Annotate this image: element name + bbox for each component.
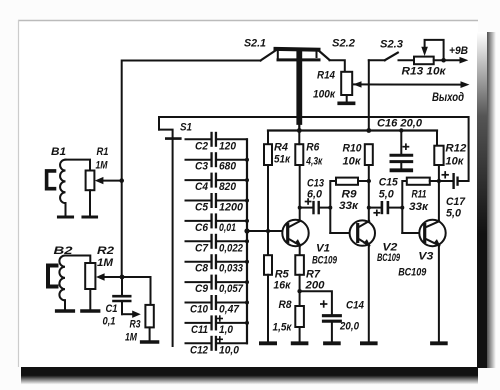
svg-text:R9: R9 [342, 189, 358, 201]
svg-text:0,022: 0,022 [219, 242, 243, 254]
svg-text:1М: 1М [125, 332, 138, 344]
ground C14 [323, 341, 341, 345]
svg-text:V3: V3 [418, 251, 433, 263]
svg-text:33к: 33к [409, 201, 430, 213]
transducer B2 coil [59, 256, 65, 301]
wire V3 emitter to ground [438, 245, 440, 342]
ground B2 [57, 309, 74, 312]
wire R13 to +9V [434, 59, 461, 61]
resistor R3 (pot) [145, 305, 153, 328]
B2 core [48, 266, 57, 287]
ground B1 [59, 215, 73, 218]
switch S2.2 blade [318, 50, 330, 60]
wire base V1 [247, 230, 287, 232]
capacitor C5 [210, 193, 212, 208]
svg-text:S2.2: S2.2 [332, 38, 355, 50]
polarity plus C17 [442, 171, 449, 178]
svg-text:6,0: 6,0 [307, 189, 323, 201]
resistor R10 [365, 144, 373, 165]
capacitor C10 [210, 295, 212, 310]
switch S2.3 [369, 59, 385, 61]
svg-text:120: 120 [219, 140, 237, 152]
node R1 tap [119, 178, 124, 183]
svg-text:1М: 1М [96, 160, 109, 172]
capacitor C9 [210, 275, 212, 290]
svg-text:4,3к: 4,3к [306, 156, 324, 168]
svg-text:С2: С2 [195, 140, 208, 152]
svg-text:R4: R4 [274, 142, 288, 154]
svg-text:С4: С4 [195, 181, 208, 193]
capacitor C13 [300, 207, 313, 209]
resistor R2 (pot) [85, 263, 95, 289]
capacitor C15 plates [381, 201, 384, 214]
svg-text:ВС109: ВС109 [312, 255, 338, 267]
svg-text:С5: С5 [195, 202, 209, 214]
switch S1 wiper bus [159, 130, 173, 346]
wire R2 wiper to R3 [102, 276, 151, 278]
resistor R6 [295, 144, 303, 165]
svg-text:ВС109: ВС109 [398, 267, 427, 279]
svg-text:С9: С9 [195, 283, 209, 295]
arrowheads group 1 [353, 47, 470, 88]
wire S2.2 to R14 [330, 60, 345, 72]
wire Vyhod output line [354, 83, 464, 85]
capacitor C2 [210, 132, 212, 147]
ground R1 [83, 215, 97, 218]
svg-text:0,033: 0,033 [219, 263, 243, 275]
svg-text:ВС109: ВС109 [377, 252, 401, 264]
grounds bottom row [259, 341, 448, 345]
svg-text:С6: С6 [195, 222, 209, 234]
svg-text:1,5к: 1,5к [273, 322, 293, 334]
capacitor bank C2..C12 wires and plates [186, 139, 248, 343]
node base tap [244, 228, 249, 233]
svg-text:+9В: +9В [449, 45, 468, 57]
svg-text:200: 200 [304, 280, 325, 292]
svg-text:S2.3: S2.3 [380, 39, 403, 51]
wire R1 wiper [102, 180, 122, 182]
svg-text:5,0: 5,0 [379, 189, 395, 201]
svg-text:1200: 1200 [219, 202, 244, 214]
resistor R1 (pot) [86, 171, 95, 191]
svg-text:С14: С14 [346, 300, 364, 312]
svg-text:5,0: 5,0 [446, 208, 462, 220]
wire B1 top to R1 [66, 160, 91, 171]
wire right bus of capacitor bank [246, 139, 248, 343]
transistor V2 [350, 220, 375, 245]
ground R14 [337, 102, 355, 106]
capacitor C17 plates [452, 173, 454, 189]
wire V2 emitter to ground [368, 245, 370, 342]
wire V3 collector [438, 181, 440, 223]
wire B2 top to R2 [65, 256, 90, 264]
svg-text:С7: С7 [195, 242, 209, 254]
wire V1 collector [299, 165, 301, 223]
switch bridge bar S2.1-S2.2 [276, 47, 319, 52]
resistor R4 [264, 144, 272, 165]
junction dots on bus [245, 158, 249, 162]
svg-text:R12: R12 [445, 143, 466, 155]
ground R3 [142, 340, 158, 343]
svg-text:0,1: 0,1 [103, 316, 116, 328]
svg-text:820: 820 [219, 181, 237, 193]
wire jog to V2 base [330, 181, 336, 233]
svg-text:V1: V1 [316, 243, 330, 255]
transistor V1 [282, 220, 308, 246]
svg-text:С11: С11 [191, 324, 208, 336]
capacitor C14 wires [300, 291, 332, 314]
R1 wiper arrowhead [95, 177, 104, 184]
R3 wiper arrowhead [132, 311, 141, 318]
capacitor C15 [369, 207, 381, 209]
wire feedback top line [159, 117, 469, 181]
svg-text:S2.1: S2.1 [244, 38, 266, 50]
polarity plus C13 [305, 198, 312, 205]
transistor V3 [419, 220, 445, 246]
wire V2 collector [368, 165, 370, 223]
resistor R9 [336, 178, 358, 185]
B1 core [47, 171, 55, 189]
svg-text:10к: 10к [445, 156, 464, 168]
svg-text:R11: R11 [412, 189, 427, 201]
svg-text:33к: 33к [339, 200, 360, 212]
svg-text:20,0: 20,0 [339, 321, 360, 333]
resistor R5 [264, 255, 272, 275]
capacitor C7 [210, 234, 212, 249]
capacitor C8 [210, 254, 212, 269]
wire V1 emitter to R7 [299, 245, 301, 255]
capacitor C13 plates [312, 201, 314, 214]
R13 rheostat loop [425, 40, 444, 60]
ground R2 [82, 309, 99, 312]
polarity plus C15 [373, 210, 380, 217]
page bottom shadow [21, 367, 478, 385]
svg-text:0,057: 0,057 [219, 283, 244, 295]
R13 wiper arrowhead [421, 47, 428, 56]
polarity plus C12 [217, 336, 224, 342]
wire jog to V3 base [402, 181, 407, 233]
svg-text:R8: R8 [279, 299, 293, 311]
svg-text:1,0: 1,0 [219, 324, 234, 336]
capacitor C4 [210, 173, 212, 188]
polarity plus C11 [217, 315, 224, 321]
page right shadow [477, 32, 496, 368]
svg-text:1М: 1М [97, 257, 114, 269]
capacitor C12 [210, 336, 212, 351]
svg-text:С8: С8 [195, 263, 209, 275]
svg-text:Выход: Выход [432, 90, 464, 104]
svg-text:0,01: 0,01 [219, 222, 236, 234]
transducer B1 coil [60, 160, 65, 204]
wire input bus from B1/B2 to S2.1 [122, 61, 261, 278]
resistor R11 [407, 178, 430, 185]
R2 wiper arrowhead [96, 273, 105, 280]
svg-text:10к: 10к [343, 156, 362, 168]
svg-text:51к: 51к [274, 154, 291, 166]
resistor R8 [295, 306, 304, 327]
capacitor C6 [210, 213, 212, 228]
switch fixed T contact [278, 58, 319, 61]
junction R13/loop [441, 58, 446, 63]
ground R5 [259, 341, 277, 345]
svg-text:R1: R1 [97, 146, 109, 158]
Vyhod right arrowhead [461, 81, 470, 88]
svg-text:R2: R2 [97, 245, 114, 257]
resistor R7 [295, 255, 304, 275]
Vyhod left arrowhead into R14 [353, 81, 362, 87]
svg-text:10,0: 10,0 [219, 344, 240, 356]
svg-text:С12: С12 [190, 344, 208, 356]
svg-text:С10: С10 [190, 304, 209, 316]
ground V2 [360, 341, 378, 345]
ground V3 [430, 341, 448, 345]
svg-text:С3: С3 [195, 161, 208, 173]
ground R8 [291, 341, 309, 345]
capacitor C16 [400, 131, 402, 154]
polarity plus C16 [403, 143, 410, 150]
svg-text:С16 20,0: С16 20,0 [377, 118, 423, 130]
svg-text:R14: R14 [317, 70, 335, 82]
wire C16 rail [268, 129, 437, 131]
+9V arrowhead [460, 57, 469, 64]
svg-text:0,47: 0,47 [219, 304, 240, 316]
ground C16 [392, 168, 412, 172]
svg-text:В2: В2 [54, 245, 73, 257]
svg-text:С1: С1 [106, 303, 118, 315]
resistor R13 [414, 57, 434, 65]
wire R4-R5 column [267, 165, 269, 255]
svg-text:S1: S1 [180, 122, 192, 134]
svg-text:100к: 100к [313, 89, 336, 101]
resistor R12 [434, 146, 443, 165]
emitter arrow V2 [363, 239, 370, 246]
capacitor C17 wires [439, 180, 453, 182]
svg-text:С15: С15 [379, 177, 399, 189]
resistor R14 [341, 72, 352, 95]
svg-text:R3: R3 [130, 319, 141, 331]
junction dots amplifier [297, 128, 302, 133]
svg-text:R13 10к: R13 10к [402, 66, 448, 78]
capacitor C1 wires [121, 277, 123, 295]
capacitor C1 plates [114, 295, 131, 298]
svg-text:R6: R6 [306, 142, 320, 154]
wire power vertical S2.3 to rail [368, 60, 370, 130]
svg-text:В1: В1 [51, 146, 66, 158]
svg-text:С17: С17 [446, 196, 466, 208]
polarity plus C14 [320, 300, 327, 307]
svg-text:680: 680 [219, 161, 237, 173]
capacitor C11 [210, 315, 212, 330]
capacitor C14 plates [324, 314, 341, 317]
emitter arrow V1 [294, 239, 301, 246]
switch S2.1 blade [261, 50, 278, 61]
svg-text:16к: 16к [273, 280, 291, 292]
capacitor C3 [210, 152, 212, 167]
svg-text:R10: R10 [343, 143, 363, 155]
node R2 tap [120, 275, 125, 280]
emitter arrow V3 [433, 239, 440, 246]
